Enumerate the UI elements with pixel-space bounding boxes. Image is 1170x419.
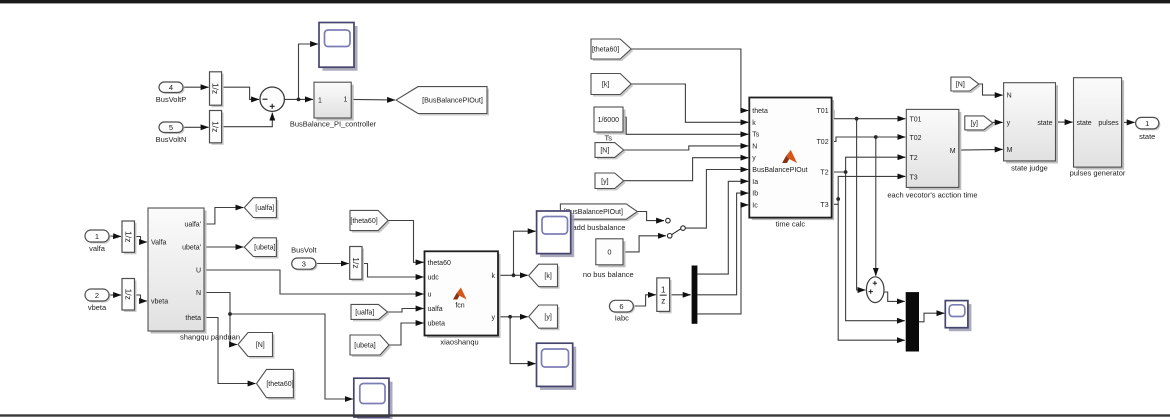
wire branch N to scope5 [230, 314, 353, 399]
svg-text:T3: T3 [820, 202, 828, 209]
goto tag [k] [529, 264, 560, 289]
bottom status divider line [0, 414, 1170, 416]
mux2 (to scope4) [906, 292, 919, 351]
inport 2 vbeta [85, 289, 111, 303]
matlab function xiaoshanqu [425, 251, 501, 338]
unit delay 3 (1/z) [122, 221, 137, 254]
wire time calc T01 to each vecotor's T01 [832, 111, 906, 119]
inport 1 valfa [85, 230, 111, 244]
from tag [ubeta] mid [350, 335, 391, 357]
svg-text:[theta60]: [theta60] [350, 218, 377, 225]
svg-text:4: 4 [169, 83, 173, 92]
wire inport1 valfa to unit-delay3 [109, 235, 121, 238]
scope5 (N, bottom center) [354, 378, 393, 419]
from tag [y] right [965, 116, 995, 132]
svg-text:M: M [950, 148, 956, 155]
unit delay 4 (1/z) [122, 279, 137, 313]
svg-text:5: 5 [169, 123, 173, 132]
manual switch contact 1 (upper) [666, 218, 671, 223]
junction dot sum1 output branch [297, 98, 301, 102]
svg-text:Iabc: Iabc [615, 314, 629, 323]
svg-text:BusVolt: BusVolt [291, 246, 317, 255]
svg-text:[k]: [k] [544, 273, 551, 280]
wire branch k up to scope2 [514, 231, 536, 275]
wire demux1 out1 to time calc Ia [697, 181, 748, 274]
svg-text:1: 1 [661, 286, 666, 295]
svg-text:3: 3 [302, 259, 306, 268]
wire sum1 to BusBalance_PI_controller [284, 98, 313, 100]
svg-text:T2: T2 [820, 170, 828, 177]
junction dot T01 branch [855, 117, 859, 121]
from tag [BusBalancePIOut] (add busbalance) [560, 204, 639, 221]
wire time calc T3 to each vecotor's T3 [832, 176, 906, 204]
matlab function time calc [749, 98, 834, 221]
svg-text:xiaoshanqu: xiaoshanqu [440, 338, 478, 347]
from tag [N] right [951, 77, 981, 93]
svg-text:time calc: time calc [776, 220, 806, 229]
manual switch contact 2 (lower) [667, 234, 672, 239]
goto tag [BusBalancePIOut] [396, 87, 489, 116]
scope3 (y) [537, 343, 577, 390]
svg-text:T02: T02 [910, 135, 922, 142]
unit delay 2 (1/z) [210, 111, 224, 145]
wire from [ubeta] to xiaoshanqu ubeta input [389, 323, 424, 345]
svg-text:U: U [196, 268, 201, 275]
svg-text:y: y [1007, 120, 1011, 127]
wire from [N] to time calc N [624, 146, 749, 150]
svg-text:1/z: 1/z [211, 121, 221, 132]
goto tag [N] [238, 333, 275, 359]
from tag [k] top [591, 74, 633, 97]
svg-text:1: 1 [318, 97, 322, 104]
wire shangqu ubeta' to goto [ubeta] [204, 246, 243, 248]
goto tag [theta60] lower [257, 369, 296, 399]
wire switch output to time calc BusBalancePIOut input [685, 170, 748, 229]
wire inport4 to unit-delay1 [183, 86, 209, 88]
wire xiaoshanqu y to goto [y] [498, 316, 528, 318]
svg-text:ubeta': ubeta' [182, 245, 201, 252]
inport 6 Iabc [609, 300, 635, 313]
svg-text:[ubeta]: [ubeta] [254, 245, 275, 252]
svg-text:[y]: [y] [971, 120, 978, 127]
svg-text:1/z: 1/z [123, 289, 133, 300]
svg-text:fcn: fcn [455, 303, 464, 310]
svg-text:BusVoltP: BusVoltP [156, 95, 186, 104]
svg-text:[y]: [y] [601, 178, 608, 185]
svg-text:2: 2 [95, 291, 99, 300]
wire from [theta60] to xiaoshanqu theta60 input [388, 221, 423, 263]
unit delay 6 (1/z) upright [657, 278, 672, 314]
svg-text:T02: T02 [817, 139, 829, 146]
matlab fcn icon xiaoshanqu [453, 288, 467, 300]
wire pulses generator to outport 1 state [1122, 121, 1135, 123]
wire demux1 out3 to time calc Ic [697, 205, 748, 314]
wire time calc T02 to each vecotor's T02 [832, 137, 906, 142]
wire inport2 vbeta to unit-delay4 [109, 294, 121, 296]
junction dot k output branch [512, 273, 516, 277]
svg-text:Ib: Ib [752, 191, 758, 198]
constant 1/6000 [594, 107, 626, 135]
wire from [y] to state judge y [993, 121, 1003, 123]
wire unit-delay4 to shangqu panduan vbeta input [135, 295, 148, 301]
subsystem each vecotor's acction time [906, 109, 961, 189]
wire unit-delay2 to sum1 (plus input, from below) [222, 113, 273, 127]
wire inport6 Iabc to unit-delay6 [633, 295, 655, 306]
from tag [theta60] top [591, 39, 633, 61]
svg-text:T2: T2 [910, 155, 918, 162]
scope2 (k) [537, 211, 575, 257]
wire sum2 output to mux2 input1 [884, 292, 905, 301]
wire inport5 to unit-delay2 [183, 126, 209, 128]
wire unit-delay5 to xiaoshanqu udc input [362, 264, 424, 278]
junction dot T2 branch [844, 170, 848, 174]
matlab fcn icon time calc [782, 150, 797, 163]
junction dot shangqu N branch [228, 312, 232, 316]
wire PI controller to goto [BusBalancePIOut] [351, 98, 395, 101]
svg-text:N: N [752, 143, 757, 150]
svg-text:each vecotor's acction time: each vecotor's acction time [887, 191, 977, 200]
wire branch sum1 output up to scope1 [299, 44, 319, 99]
inport 4 BusVoltP [159, 82, 185, 94]
wire xiaoshanqu k to goto [k] [498, 274, 528, 276]
wire branch T01 down to sum2 left input [857, 119, 866, 290]
wire demux1 out2 to time calc Ib [697, 193, 748, 295]
svg-text:no bus balance: no bus balance [583, 270, 634, 279]
svg-text:BusBalancePIOut: BusBalancePIOut [752, 167, 807, 174]
wire from [y] to time calc y [624, 158, 749, 181]
junction dot T3 branch [836, 197, 840, 201]
inport 5 BusVoltN [159, 122, 185, 134]
svg-text:1/z: 1/z [211, 83, 221, 94]
wire from [theta60] to time calc theta [631, 49, 748, 111]
from tag [theta60] mid [350, 210, 390, 232]
svg-text:valfa: valfa [89, 244, 106, 253]
sum block sum1 [260, 87, 284, 111]
subsystem pulses generator [1074, 78, 1125, 170]
unit delay 5 (1/z) [350, 247, 364, 282]
svg-text:M: M [1007, 147, 1013, 154]
unit delay 1 (1/z) [210, 72, 224, 107]
svg-text:vbeta: vbeta [151, 299, 168, 306]
svg-text:shangqu panduan: shangqu panduan [180, 333, 240, 342]
from tag [y] mid [595, 173, 626, 191]
svg-text:k: k [492, 273, 496, 280]
wire shangqu U to xiaoshanqu u input [204, 270, 424, 294]
svg-text:vbeta: vbeta [88, 303, 107, 312]
wire branch y down to scope3 [510, 317, 535, 364]
wire branch T02 down to sum2 top input [875, 137, 877, 276]
svg-text:[BusBalancePIOut]: [BusBalancePIOut] [422, 96, 483, 105]
svg-text:6: 6 [619, 302, 623, 311]
scope1 [319, 23, 358, 71]
svg-text:state judge: state judge [1011, 164, 1048, 173]
svg-text:Ts: Ts [752, 132, 760, 139]
svg-text:[ualfa]: [ualfa] [255, 205, 274, 212]
wire from [N] to state judge N [979, 84, 1003, 95]
top toolbar divider bar [0, 0, 1170, 3]
svg-text:z: z [661, 297, 665, 306]
svg-text:[ualfa]: [ualfa] [355, 309, 374, 316]
svg-text:N: N [196, 290, 201, 297]
svg-text:BusVoltN: BusVoltN [156, 135, 187, 144]
svg-text:[N]: [N] [956, 82, 965, 89]
svg-text:1/z: 1/z [123, 231, 133, 242]
svg-text:u: u [428, 292, 432, 299]
svg-text:N: N [1007, 93, 1012, 100]
svg-text:[theta60]: [theta60] [266, 381, 293, 388]
svg-text:[theta60]: [theta60] [592, 47, 619, 54]
svg-text:theta: theta [185, 315, 201, 322]
wire from [k] to time calc k [631, 84, 748, 122]
svg-text:1: 1 [1145, 119, 1149, 128]
svg-text:Ia: Ia [752, 179, 758, 186]
demux1 (Iabc split) [692, 266, 698, 324]
svg-text:[k]: [k] [602, 82, 609, 89]
svg-text:Ts: Ts [605, 134, 613, 143]
svg-text:ualfa: ualfa [428, 306, 443, 313]
constant 0 (no bus balance) [596, 239, 626, 267]
subsystem BusBalance_PI_controller [314, 82, 354, 120]
svg-text:BusBalance_PI_controller: BusBalance_PI_controller [290, 120, 377, 129]
sum block sum2 [866, 277, 884, 303]
wire each vecotor's M to state judge M [959, 148, 1003, 151]
from tag [ualfa] mid [351, 304, 390, 321]
svg-text:state: state [1139, 132, 1155, 141]
inport 3 BusVolt [292, 258, 318, 271]
svg-text:state: state [1077, 120, 1092, 127]
svg-text:[ubeta]: [ubeta] [354, 343, 375, 350]
svg-text:1/z: 1/z [351, 257, 361, 268]
svg-text:add busbalance: add busbalance [573, 223, 626, 232]
svg-text:y: y [492, 314, 496, 321]
svg-text:0: 0 [607, 248, 611, 257]
outport 1 state [1136, 117, 1161, 130]
goto tag [ualfa] [244, 198, 278, 220]
subsystem shangqu panduan [148, 208, 207, 334]
wire shangqu ualfa' to goto [ualfa] [204, 208, 243, 225]
wire from [BusBalancePIOut] tag to switch upper contact [637, 212, 664, 221]
wire shangqu N down to goto [N] [204, 293, 237, 345]
svg-text:[N]: [N] [256, 342, 265, 349]
scope4 (mux output) [945, 301, 971, 332]
junction dot y output branch [508, 315, 512, 319]
svg-text:y: y [752, 155, 756, 162]
wire mux2 output to scope4 [919, 313, 944, 322]
wire inport3 BusVolt to unit-delay5 [316, 263, 349, 265]
svg-text:theta: theta [752, 108, 768, 115]
wire unit-delay3 to shangqu panduan Valfa input [135, 237, 148, 243]
svg-text:[N]: [N] [600, 148, 609, 155]
manual switch lever [672, 229, 681, 235]
wire branch T3 down to mux2 input3 [838, 204, 905, 340]
goto tag [y] [529, 305, 560, 330]
svg-text:pulses: pulses [1098, 120, 1119, 127]
wire shangqu theta to goto [theta60] [204, 318, 256, 384]
wire unit-delay1 to sum1 (minus input) [222, 87, 259, 99]
svg-text:T01: T01 [817, 108, 829, 115]
svg-text:ualfa': ualfa' [184, 222, 201, 229]
wire unit-delay6 to demux1 [670, 294, 691, 296]
wire branch T2 down to mux2 input2 [846, 172, 905, 321]
svg-text:1: 1 [344, 97, 348, 104]
manual switch lever pivot [681, 226, 686, 231]
wire state judge state to pulses generator [1056, 121, 1073, 123]
svg-text:pulses generator: pulses generator [1070, 169, 1126, 178]
svg-text:[y]: [y] [544, 314, 551, 321]
wire constant 1/6000 to time calc Ts [623, 117, 748, 134]
wire from [ualfa] to xiaoshanqu ualfa input [388, 309, 424, 313]
wire time calc T2 to each vecotor's T2 [832, 157, 906, 172]
junction dot T02 branch [874, 135, 878, 139]
svg-text:1/6000: 1/6000 [598, 117, 620, 124]
wire constant 0 to switch lower contact [623, 236, 666, 252]
from tag [N] mid [595, 143, 626, 160]
svg-text:Ic: Ic [752, 202, 758, 209]
svg-text:T01: T01 [910, 117, 922, 124]
svg-text:udc: udc [428, 275, 440, 282]
subsystem state judge [1004, 83, 1058, 164]
svg-text:k: k [752, 120, 756, 127]
svg-text:state: state [1037, 120, 1052, 127]
svg-text:1: 1 [95, 232, 99, 241]
svg-text:Valfa: Valfa [151, 240, 167, 247]
svg-text:ubeta: ubeta [428, 321, 446, 328]
goto tag [ubeta] [244, 238, 278, 259]
svg-text:T3: T3 [910, 174, 918, 181]
svg-text:theta60: theta60 [428, 260, 451, 267]
